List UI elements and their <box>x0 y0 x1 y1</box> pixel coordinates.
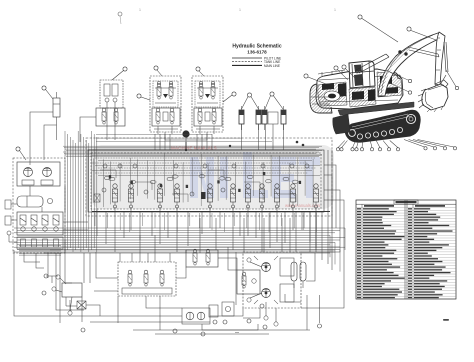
legend line dashed <box>232 61 262 63</box>
watermark band <box>91 145 334 209</box>
callout 1 leader to block A <box>112 67 127 80</box>
band bottom ports <box>97 208 316 252</box>
small valve mid <box>186 249 218 267</box>
interconnect wires <box>14 150 344 334</box>
main band internal horizontal pilot lines <box>92 156 320 176</box>
junction dots <box>296 141 299 144</box>
track road wheels <box>357 134 362 139</box>
dark blob in band <box>201 192 206 199</box>
cylinder boom L <box>239 106 244 130</box>
spool at x=262 <box>259 184 264 208</box>
excavator callout cab2 <box>342 65 356 79</box>
excavator callout cab1 <box>334 66 348 80</box>
excavator callout top boom <box>358 15 398 42</box>
spool at x=293 <box>290 184 295 208</box>
callout left of block C <box>137 94 150 100</box>
parts table <box>356 200 456 299</box>
excavator bottom callout row <box>336 140 456 151</box>
upper structure <box>316 69 403 109</box>
accumulator horizontal <box>17 196 53 207</box>
pump control valve block D <box>192 76 223 134</box>
legend line solid2 <box>232 64 262 66</box>
svg-text:MAIN LINE: MAIN LINE <box>264 64 280 68</box>
pilot manifold block <box>118 262 176 296</box>
travel motor assembly left <box>17 162 60 186</box>
main control valve outer box <box>88 150 324 212</box>
spool at x=160 <box>157 184 162 208</box>
drop lines from pump blocks <box>155 134 212 150</box>
callout lower cluster a <box>42 274 267 336</box>
bottom small boxes <box>209 302 234 317</box>
right lower block <box>237 270 260 294</box>
svg-text:1: 1 <box>334 8 336 12</box>
spool at x=316 <box>313 184 318 208</box>
callout cylinders stick <box>265 92 283 109</box>
track idler <box>349 130 356 137</box>
callout right of block D <box>223 92 236 102</box>
excavator callout boom mid <box>390 72 412 83</box>
dash mark below table <box>443 319 449 321</box>
cylinder boom R <box>256 106 261 130</box>
stick cylinder <box>408 47 439 57</box>
spool at x=210 <box>207 184 212 208</box>
callout filter <box>42 86 53 99</box>
svg-text:136-6178: 136-6178 <box>247 50 267 55</box>
callout cylinders boom <box>242 93 259 109</box>
solenoid valve row 1 <box>17 212 63 235</box>
verticals band-to-bus gap <box>95 213 316 232</box>
link pilot A to bus <box>80 108 115 142</box>
bucket linkage <box>435 75 448 90</box>
left relief valves in band <box>94 194 100 202</box>
spool at x=248 <box>245 184 250 208</box>
svg-text:1: 1 <box>139 8 141 12</box>
callout to block C <box>154 66 162 76</box>
stick <box>435 32 445 85</box>
main valve internal top row circles <box>103 164 309 181</box>
pump suction lines <box>165 132 207 142</box>
pilot valve block B <box>96 108 125 126</box>
excavator callout swing <box>386 70 401 79</box>
bottom callouts <box>173 304 322 333</box>
spool at x=177 <box>174 184 179 208</box>
engine black details <box>322 76 398 101</box>
band interior clutter <box>94 153 313 207</box>
small filter component top-left <box>53 92 60 140</box>
boom <box>378 33 443 96</box>
callout to block D <box>196 67 204 76</box>
main valve outer dashed enclosure <box>86 138 332 216</box>
title: Hydraulic Schematic <box>232 44 281 55</box>
boom pivot bosses <box>398 50 401 53</box>
car body frame <box>338 102 414 115</box>
spool at x=131 <box>128 184 133 208</box>
pump control valve block C <box>150 76 181 134</box>
accumulator pair bottom right <box>291 262 306 288</box>
pump group bottom <box>182 308 210 324</box>
zone tick bottom <box>235 332 239 333</box>
cylinder drop lines <box>241 124 243 150</box>
counterweight <box>310 84 332 113</box>
track sprocket <box>406 114 415 123</box>
horizontal pilot lines upper comb <box>63 135 322 157</box>
excavator track <box>345 110 420 142</box>
spool at x=115 <box>112 184 117 208</box>
horizontal bus band lower <box>14 228 345 272</box>
watermark blue letters <box>190 152 320 198</box>
excavator callout stick top <box>407 27 436 40</box>
excavator callout body left <box>304 74 326 84</box>
left edge small widgets <box>5 200 17 242</box>
excavator illustration <box>310 32 448 142</box>
left stack outer dashed box <box>13 158 65 253</box>
pilot filter cluster bottom-left <box>52 275 86 315</box>
callout left stack <box>16 147 26 160</box>
swing motor assembly bottom-center <box>243 252 301 326</box>
boom cylinder <box>356 54 389 73</box>
left stack hatch texture <box>19 246 61 256</box>
pilot valve block A <box>100 80 123 108</box>
pilot pump circle <box>182 130 189 137</box>
handrails <box>318 70 345 76</box>
bucket <box>422 84 448 110</box>
undercarriage left dark <box>333 114 350 134</box>
track top edge highlight <box>351 114 412 130</box>
cylinder bucket <box>281 106 286 130</box>
excavator callout arm mid <box>392 84 412 94</box>
engine deck shading <box>318 82 347 106</box>
wire from filter down-left <box>30 112 57 165</box>
spool at x=277 <box>274 184 279 208</box>
small callout top-center-left <box>118 12 122 24</box>
excavator callout bucket right <box>446 70 459 90</box>
bucket cylinder <box>444 42 448 72</box>
cylinder stick <box>262 106 267 130</box>
spool at x=233 <box>230 184 235 208</box>
svg-text:1: 1 <box>239 8 241 12</box>
cab <box>349 61 375 88</box>
legend line solid <box>232 57 262 59</box>
zone tick marks top <box>139 8 336 12</box>
vertical pilot line bundle <box>65 131 97 252</box>
solenoid valve row 2 <box>17 237 63 249</box>
